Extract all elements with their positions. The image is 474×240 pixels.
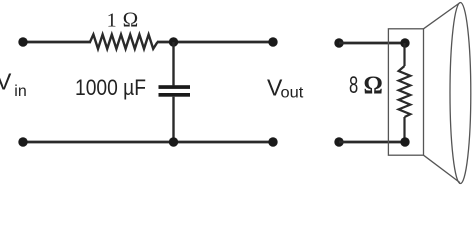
speaker rim ellipse bbox=[450, 3, 471, 184]
resistor R2 bottom lead bbox=[403, 117, 405, 142]
resistor R2 bottom node bbox=[400, 137, 409, 146]
label 1 Ω bbox=[107, 8, 139, 32]
resistor R2 zigzag bbox=[399, 66, 411, 117]
junction node top (cap tap) bbox=[169, 37, 178, 46]
capacitor C1 bottom lead bbox=[172, 97, 174, 142]
speaker cone top edge bbox=[424, 3, 460, 29]
svg-text:8: 8 bbox=[349, 72, 358, 99]
terminal dot top-left bbox=[18, 37, 27, 46]
label 8 Ω bbox=[349, 70, 383, 99]
svg-text:in: in bbox=[14, 83, 26, 100]
terminal dot speaker bottom-left bbox=[334, 137, 343, 146]
resistor R2 top node bbox=[400, 38, 409, 47]
junction node bottom (cap return) bbox=[169, 137, 178, 146]
speaker cone bottom edge bbox=[424, 155, 460, 182]
bottom wire bbox=[23, 141, 273, 144]
svg-text:1000 µF: 1000 µF bbox=[75, 75, 146, 100]
svg-text:Ω: Ω bbox=[123, 8, 139, 32]
terminal dot bottom-right bbox=[268, 137, 277, 146]
terminal dot top-right bbox=[268, 37, 277, 46]
terminal dot bottom-left bbox=[18, 137, 27, 146]
svg-text:1: 1 bbox=[107, 10, 117, 32]
svg-text:out: out bbox=[281, 85, 305, 102]
speaker frame rectangle bbox=[388, 29, 423, 155]
terminal dot speaker top-left bbox=[334, 38, 343, 47]
wire speaker bottom bbox=[339, 141, 405, 144]
wire top-right bbox=[157, 41, 273, 44]
svg-text:V: V bbox=[0, 69, 12, 95]
capacitor C1 top lead bbox=[172, 42, 174, 85]
resistor R1 zigzag bbox=[90, 35, 158, 49]
label Vin bbox=[0, 69, 27, 101]
capacitor C1 bottom plate bbox=[159, 93, 191, 97]
label Vout bbox=[267, 75, 304, 102]
wire speaker top bbox=[339, 42, 405, 45]
svg-text:Ω: Ω bbox=[364, 70, 383, 99]
wire top-left (Vin top lead) bbox=[23, 41, 91, 44]
resistor R2 top lead bbox=[403, 43, 405, 66]
capacitor C1 top plate bbox=[159, 85, 191, 89]
